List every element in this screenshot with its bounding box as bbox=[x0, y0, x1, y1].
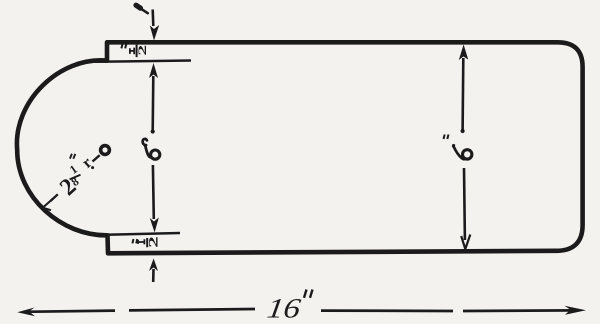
dimension 5 upper segment (arrow up onto extension line) bbox=[149, 63, 158, 134]
dimension 16 segment 1 bbox=[23, 311, 115, 312]
label 1/2 bottom (rotated) bbox=[132, 236, 160, 248]
dimension 16 segment 4 bbox=[463, 309, 574, 312]
svg-text:16: 16 bbox=[265, 293, 303, 324]
dimension 6 lower segment (open arrow down onto bottom edge) bbox=[461, 168, 470, 249]
extension line top (step 1/2) bbox=[95, 61, 191, 62]
label 1/2 top (rotated) bbox=[121, 44, 148, 57]
radius leader lower segment with open arrowhead bbox=[43, 194, 58, 210]
flourish tick top bbox=[136, 5, 141, 8]
hole ring bbox=[101, 146, 110, 155]
plate outline bbox=[17, 42, 583, 253]
label 2 1/8 r (rotated along leader) bbox=[55, 154, 95, 201]
extension line bottom (step 1/2) bbox=[93, 233, 180, 235]
dimension 16 segment 3 bbox=[321, 309, 453, 312]
label 16 bbox=[265, 290, 312, 324]
svg-text:2: 2 bbox=[135, 45, 149, 56]
dimension 16 right arrowhead bbox=[565, 306, 587, 315]
dimension 5 lower segment (arrow down onto extension line) bbox=[150, 165, 159, 233]
radius leader upper segment bbox=[93, 155, 100, 161]
dimension 16 left arrowhead bbox=[17, 308, 35, 317]
dimension line 1/2 bottom (arrow up onto bottom edge) bbox=[149, 259, 158, 283]
label 6 (rotated) bbox=[444, 135, 472, 160]
svg-text:2: 2 bbox=[146, 236, 160, 248]
label 5 (rotated, hand-drawn) bbox=[143, 139, 160, 159]
dimension 16 segment 2 bbox=[129, 309, 255, 310]
dimension 6 upper segment (arrow up onto top edge) bbox=[459, 45, 468, 134]
dimension line 1/2 top (arrow down onto top edge) bbox=[150, 10, 159, 41]
